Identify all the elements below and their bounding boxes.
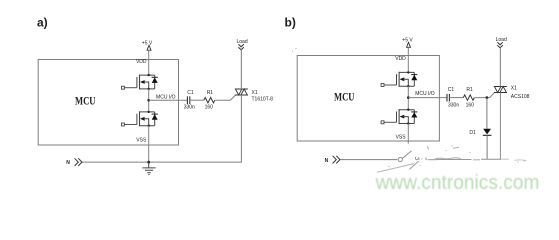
svg-text:MCU: MCU (75, 96, 96, 108)
svg-text:VDD: VDD (395, 56, 406, 62)
svg-text:MCU: MCU (334, 91, 355, 103)
svg-text:+5 V: +5 V (142, 40, 153, 46)
svg-text:b): b) (285, 16, 296, 30)
svg-text:X1: X1 (511, 85, 517, 91)
svg-text:C1: C1 (448, 87, 455, 93)
svg-text:a): a) (37, 16, 48, 30)
svg-text:R1: R1 (207, 90, 214, 96)
svg-text:Load: Load (237, 39, 248, 45)
svg-text:160: 160 (466, 102, 475, 108)
svg-text:X1: X1 (252, 90, 258, 96)
svg-text:Load: Load (496, 37, 507, 43)
svg-text:D1: D1 (469, 130, 476, 136)
svg-text:C1: C1 (187, 90, 194, 96)
svg-text:MCU I/O: MCU I/O (415, 91, 435, 97)
svg-text:VSS: VSS (136, 138, 147, 144)
svg-text:ACS108: ACS108 (511, 94, 530, 100)
svg-text:T1610T-8: T1610T-8 (252, 97, 274, 103)
svg-text:R1: R1 (466, 87, 473, 93)
svg-text:N: N (325, 158, 329, 164)
svg-text:MCU I/O: MCU I/O (156, 95, 176, 101)
svg-text:160: 160 (205, 104, 214, 110)
svg-text:VSS: VSS (396, 134, 407, 140)
svg-text:330n: 330n (184, 104, 195, 110)
svg-text:VDD: VDD (136, 59, 147, 65)
svg-text:N: N (66, 160, 70, 166)
svg-text:www.cntronics.com: www.cntronics.com (375, 172, 540, 194)
svg-text:330n: 330n (448, 103, 459, 109)
svg-text:+5 V: +5 V (402, 37, 413, 43)
